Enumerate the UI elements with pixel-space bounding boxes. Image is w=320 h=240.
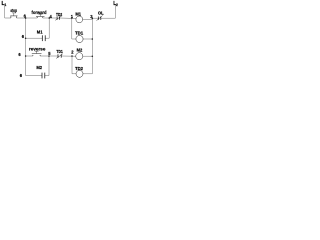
svg-text:M2: M2: [77, 48, 83, 53]
wire node3 to OL: [92, 17, 98, 19]
svg-text:stop: stop: [10, 8, 17, 13]
M1 contact label: [37, 30, 43, 35]
contact TD1 (NC): [56, 54, 62, 59]
node 3: [90, 14, 93, 19]
svg-text:6: 6: [22, 34, 25, 39]
wire rung1 left: [5, 17, 11, 19]
pushbutton forward (NO): [36, 14, 45, 18]
coil TD1: [76, 35, 83, 42]
node 4: [48, 14, 52, 19]
wire forward to TD2 contact: [43, 17, 57, 19]
svg-text:M1: M1: [75, 12, 81, 17]
node 2: [71, 50, 74, 57]
wire TD2 coil to node3 bus: [83, 73, 92, 75]
coil M1: [76, 16, 83, 23]
M2 contact label: [36, 65, 42, 70]
node L2 label: [113, 1, 118, 7]
TD2 contact label: [56, 12, 63, 17]
svg-text:1: 1: [71, 14, 74, 19]
svg-text:M1: M1: [37, 30, 43, 35]
wire node4 bus vertical: [48, 18, 50, 38]
svg-text:TD2: TD2: [75, 66, 84, 71]
pushbutton reverse (NO): [32, 51, 42, 56]
svg-text:2: 2: [71, 50, 74, 55]
OL contact label: [98, 11, 104, 16]
wire reverse rung left: [26, 55, 33, 57]
node 6: [24, 13, 27, 18]
contact M2 (NO seal): [42, 73, 45, 79]
wire node6 bus vertical: [25, 18, 27, 76]
svg-text:forward: forward: [32, 10, 47, 15]
wire reverse to TD1 contact: [40, 55, 58, 57]
svg-text:5: 5: [48, 51, 51, 56]
forward label: [32, 10, 47, 15]
power rail L1: [4, 5, 6, 18]
wire M2 coil to node3 bus: [83, 55, 92, 57]
wire TD1 coil to node3 bus: [83, 38, 92, 40]
svg-text:TD1: TD1: [75, 30, 84, 35]
coil M2: [76, 53, 83, 60]
wire M1 coil to node3: [83, 18, 93, 19]
pushbutton stop (NC): [10, 13, 17, 18]
node junction seal1-bus6: [22, 34, 27, 39]
wire seal rung M2: [26, 75, 49, 77]
wire TD1 to M2 coil: [61, 55, 76, 57]
contact M1 (NO seal): [42, 35, 45, 41]
wire node2 bus vertical: [72, 56, 76, 74]
wire node5 bus vertical: [48, 56, 50, 76]
reverse label: [29, 47, 46, 52]
power rail L2: [114, 5, 116, 18]
svg-text:M2: M2: [36, 65, 42, 70]
node junction TD1-bus3: [92, 38, 94, 40]
svg-text:reverse: reverse: [29, 47, 46, 52]
svg-text:6: 6: [20, 73, 23, 78]
node 5: [48, 51, 51, 57]
TD1 coil label: [75, 30, 84, 35]
node 6 seal2 label: [20, 73, 23, 78]
M1 coil label: [75, 12, 81, 17]
svg-text:1: 1: [4, 3, 6, 7]
svg-text:TD1: TD1: [56, 49, 63, 54]
wire stop to forward: [17, 17, 38, 19]
coil TD2: [76, 70, 83, 77]
stop label: [10, 8, 17, 13]
svg-text:2: 2: [116, 3, 118, 7]
contact TD2 (NC): [55, 16, 61, 20]
svg-text:OL: OL: [98, 11, 104, 16]
wire OL to L2 rail: [101, 17, 116, 19]
M2 coil label: [77, 48, 83, 53]
svg-text:TD2: TD2: [56, 12, 63, 17]
contact OL overload (NC): [97, 16, 103, 21]
wire TD2 to M1 coil: [60, 17, 76, 19]
TD2 coil label: [75, 66, 84, 71]
wire node3 bus vertical: [91, 18, 93, 74]
node junction reverse-bus6: [18, 52, 26, 57]
node 1: [71, 14, 74, 19]
node L1 label: [2, 1, 7, 7]
TD1 contact label: [56, 49, 63, 54]
svg-text:6: 6: [18, 52, 21, 57]
node junction M2-bus3: [92, 55, 94, 57]
wire node1 bus vertical: [72, 18, 76, 39]
wire seal rung M1: [26, 37, 50, 39]
